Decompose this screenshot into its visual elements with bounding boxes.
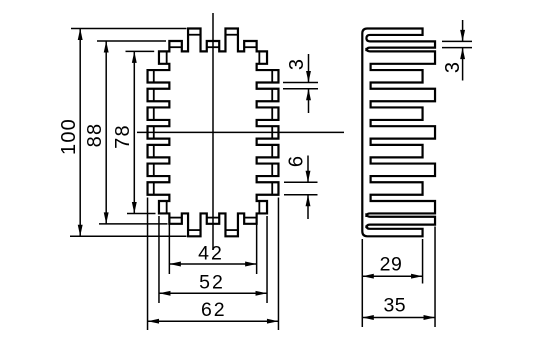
- svg-text:52: 52: [199, 271, 225, 293]
- svg-text:3: 3: [442, 61, 464, 73]
- heatsink cross-section profile outline: [148, 29, 279, 237]
- svg-text:62: 62: [201, 299, 227, 321]
- dim 35: [434, 227, 436, 328]
- svg-text:29: 29: [380, 253, 403, 275]
- svg-text:100: 100: [58, 118, 80, 155]
- svg-text:42: 42: [198, 243, 224, 265]
- dim 3 (side view fin): [442, 40, 472, 42]
- dim 3 (fin gap): [283, 82, 318, 84]
- dim 52: [158, 216, 160, 303]
- svg-text:3: 3: [286, 58, 308, 70]
- fin tip inner lines (left view): [153, 70, 155, 82]
- dim 29: [361, 239, 363, 327]
- dim 42: [168, 216, 170, 274]
- svg-text:6: 6: [285, 155, 307, 167]
- svg-text:78: 78: [112, 124, 134, 149]
- vertical center line: [212, 13, 214, 250]
- dim 6 (fin width): [284, 181, 318, 183]
- side view: spine with fins: [362, 29, 435, 237]
- svg-text:35: 35: [383, 294, 406, 316]
- dim 88: [97, 40, 166, 42]
- dim 78: [126, 50, 155, 52]
- horizontal center line: [137, 131, 344, 133]
- dim 100: [71, 28, 187, 30]
- svg-text:88: 88: [84, 123, 106, 148]
- dim 62: [147, 198, 149, 331]
